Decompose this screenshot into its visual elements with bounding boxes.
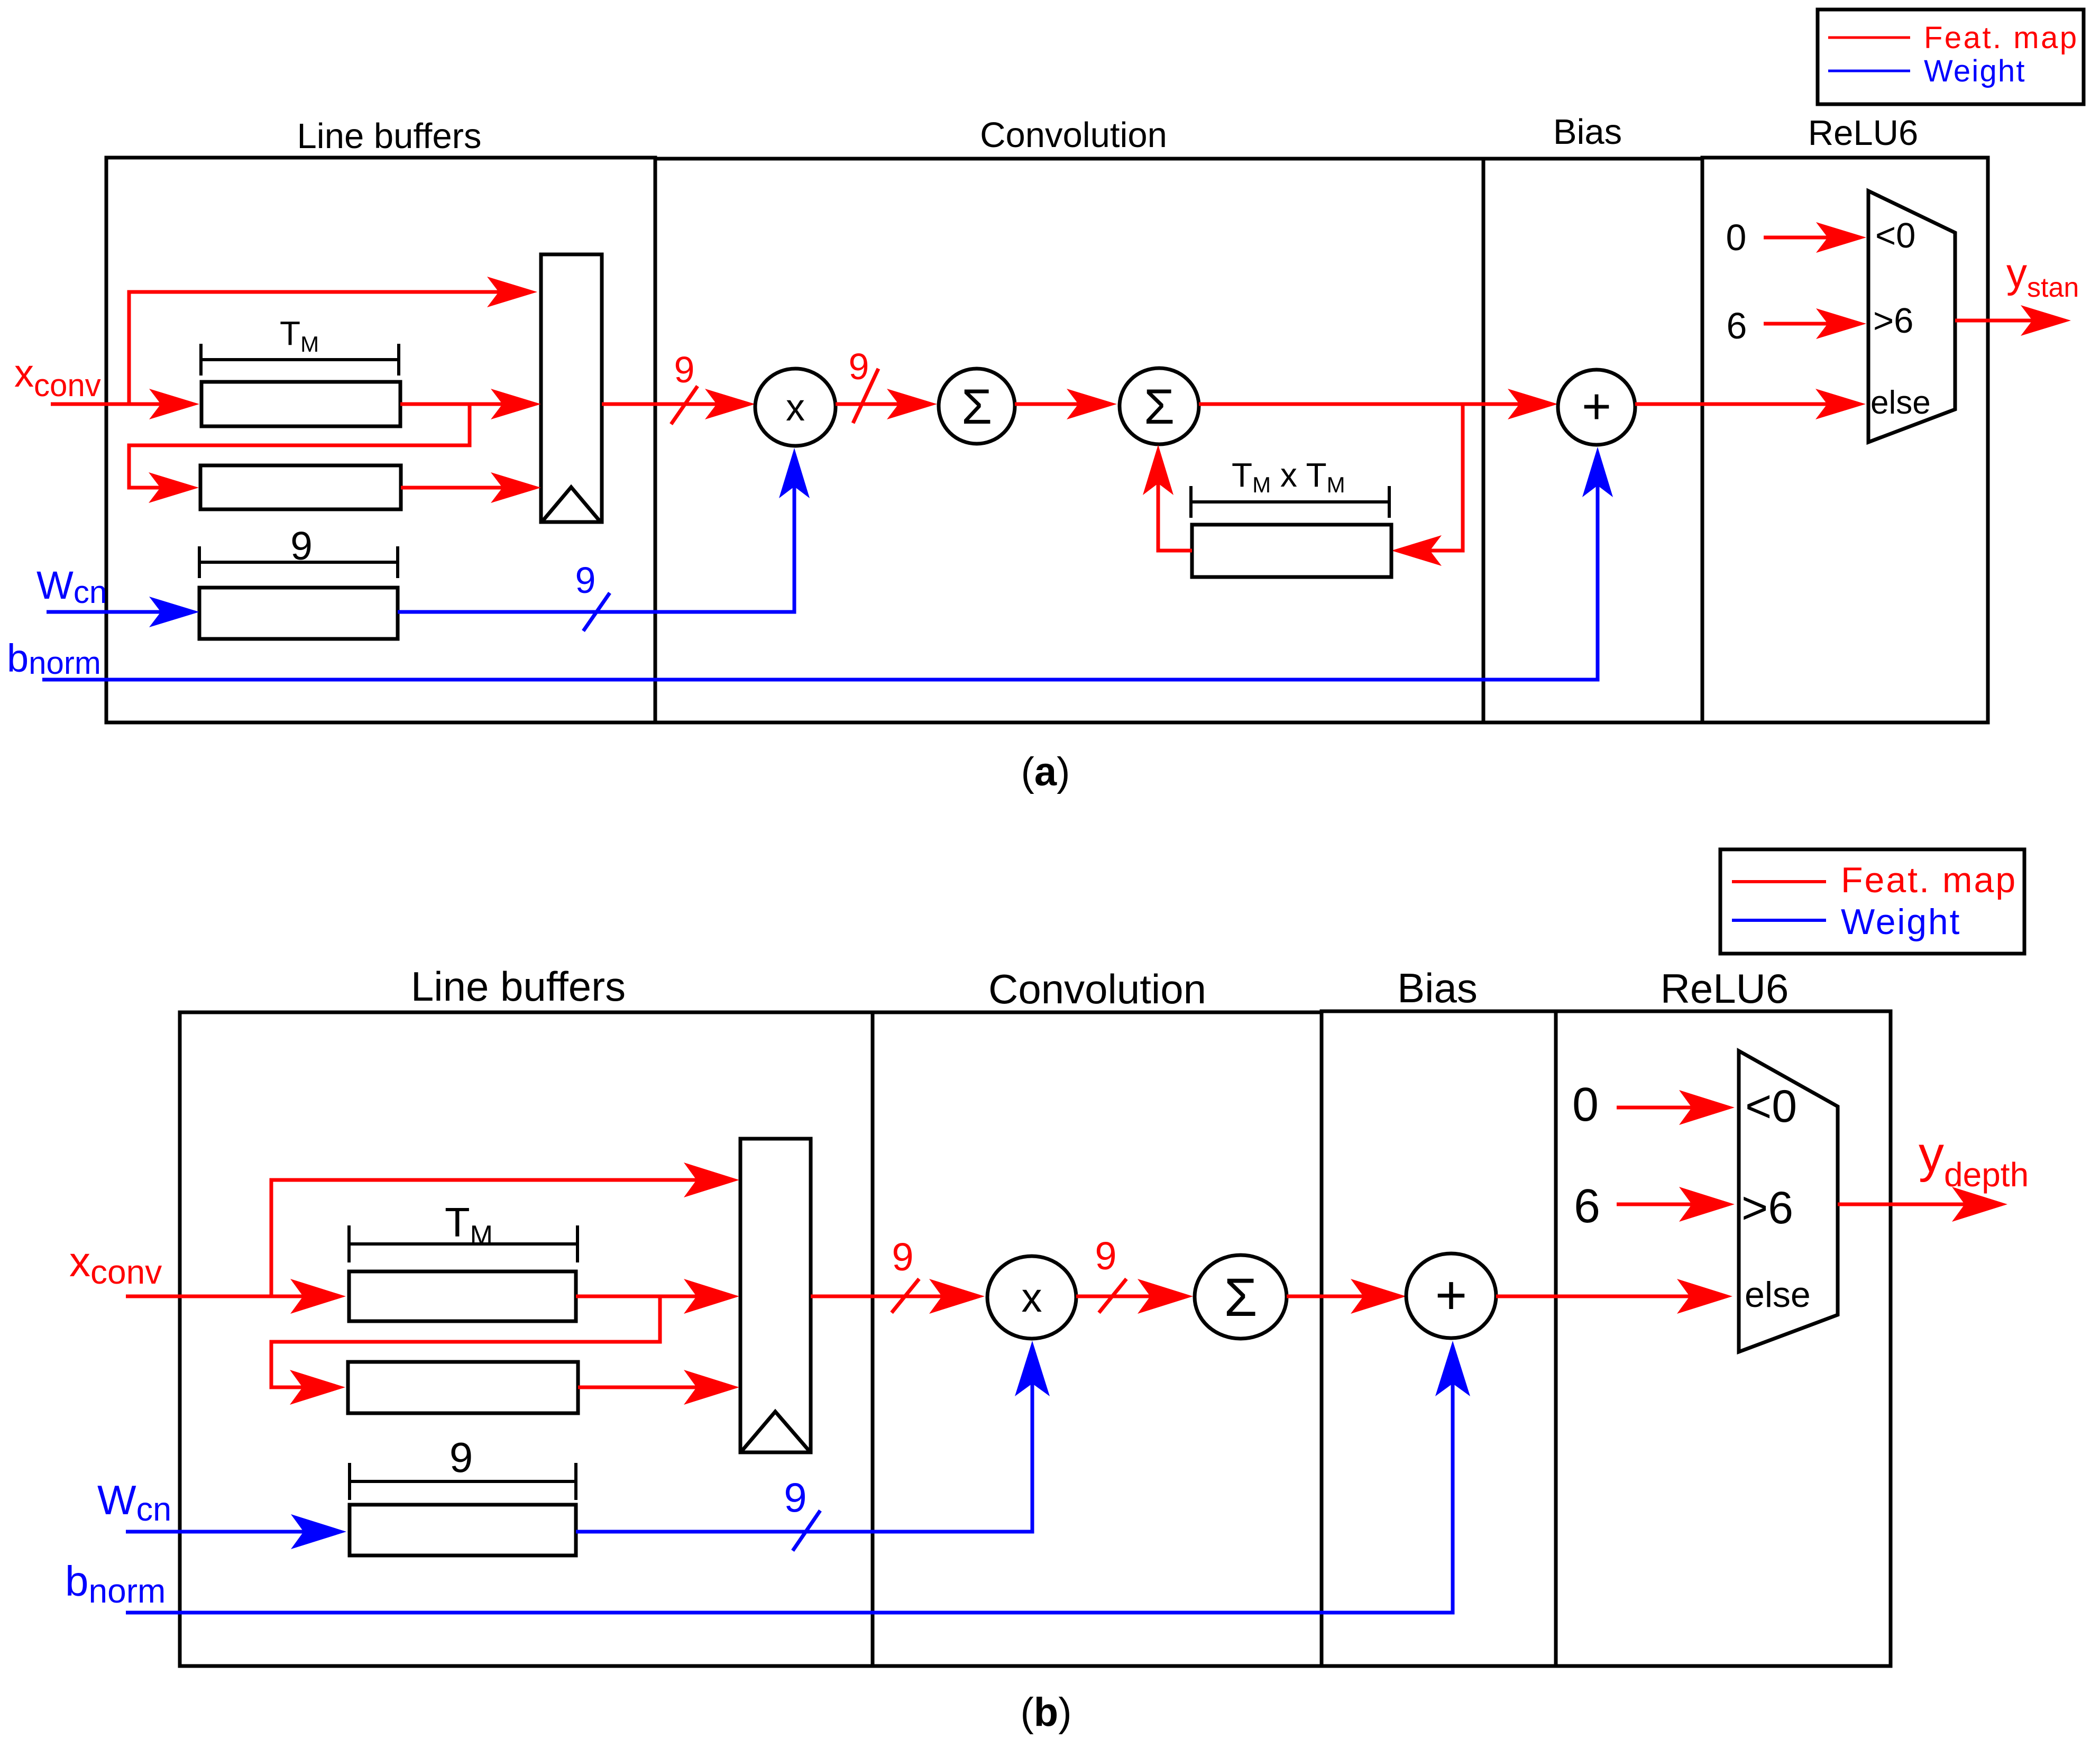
line buffer 1 (a) xyxy=(201,382,400,426)
wire mux output y_stan (a) xyxy=(1955,305,2071,336)
svg-text:Σ: Σ xyxy=(961,379,992,434)
svg-text:0: 0 xyxy=(1726,217,1747,258)
section box: Convolution (b) xyxy=(873,1012,1322,1666)
svg-text:9: 9 xyxy=(892,1235,913,1279)
svg-text:Feat. map: Feat. map xyxy=(1924,21,2079,55)
svg-text:6: 6 xyxy=(1574,1180,1600,1233)
label x_conv (a) xyxy=(14,351,101,403)
label 6 input (b) xyxy=(1574,1180,1600,1233)
wire x_conv input (b) xyxy=(126,1279,346,1314)
svg-text:>6: >6 xyxy=(1741,1183,1793,1233)
sum circle (b) xyxy=(1195,1255,1287,1339)
mux label &lt;0 (b) xyxy=(1745,1081,1797,1132)
label: ReLU6 (b) xyxy=(1661,965,1789,1012)
multiplier circle x (a) xyxy=(755,369,836,446)
svg-text:Weight: Weight xyxy=(1924,54,2026,88)
wire register output to multiplier (a) xyxy=(602,389,755,419)
mux label &gt;6 (a) xyxy=(1873,301,1913,341)
wire W_cn input (a) xyxy=(47,597,199,627)
svg-text:9: 9 xyxy=(575,560,596,601)
label T_M (b) xyxy=(445,1199,493,1251)
legend blue line sample (b) xyxy=(1732,919,1826,922)
label: Line buffers (b) xyxy=(411,963,626,1010)
wire buffer2 output to register (b) xyxy=(578,1370,739,1405)
wire 6 to mux (a) xyxy=(1764,308,1866,339)
register (a) xyxy=(541,254,602,522)
svg-text:Bias: Bias xyxy=(1397,965,1478,1011)
wire buffer1 output feedback to buffer2 (b) xyxy=(271,1296,660,1405)
label 9 weight (a) xyxy=(575,560,596,601)
caption (a) xyxy=(1021,749,1070,794)
weight buffer (b) xyxy=(350,1505,576,1555)
dimension bracket TmxTm (a) xyxy=(1191,486,1389,518)
sum circle 1 (a) xyxy=(939,369,1015,444)
wire sum2 to adder (a) xyxy=(1199,389,1558,419)
legend label: Feat. map (a) xyxy=(1924,21,2079,55)
legend red line sample (a) xyxy=(1828,36,1910,39)
svg-text:(a): (a) xyxy=(1021,749,1070,794)
svg-text:Convolution: Convolution xyxy=(980,115,1167,155)
label 9 after multiplier (a) xyxy=(849,346,869,387)
label 0 input (a) xyxy=(1726,217,1747,258)
bus slash 9 after register (b) xyxy=(892,1279,919,1313)
adder circle + (b) xyxy=(1406,1253,1496,1338)
section box: ReLU6 (a) xyxy=(1702,158,1988,722)
svg-text:+: + xyxy=(1435,1265,1468,1326)
wire sum to adder (b) xyxy=(1287,1279,1406,1314)
label 9 over weight buffer (b) xyxy=(450,1434,473,1481)
svg-text:Feat. map: Feat. map xyxy=(1841,860,2017,900)
svg-text:x: x xyxy=(1022,1274,1042,1321)
dimension bracket T_M (b) xyxy=(349,1225,577,1262)
wire weight buffer to multiplier (a) xyxy=(398,448,810,612)
label: Convolution (a) xyxy=(980,115,1167,155)
wire adder to mux else (a) xyxy=(1635,389,1866,419)
dimension bracket 9 (a) xyxy=(199,546,398,578)
svg-text:Bias: Bias xyxy=(1553,112,1622,152)
mux label &gt;6 (b) xyxy=(1741,1183,1793,1233)
label 6 input (a) xyxy=(1727,305,1747,346)
wire feedback from node to TmxTm buffer (a) xyxy=(1391,404,1463,566)
svg-text:Line buffers: Line buffers xyxy=(297,116,482,156)
svg-text:else: else xyxy=(1870,385,1931,421)
mux trapezoid (b) xyxy=(1739,1051,1838,1352)
label 9 after register (a) xyxy=(674,349,695,390)
svg-text:Weight: Weight xyxy=(1841,902,1961,942)
mux trapezoid (a) xyxy=(1868,191,1955,442)
label: ReLU6 (a) xyxy=(1808,113,1919,153)
wire 0 to mux (a) xyxy=(1764,222,1866,253)
section box: ReLU6 (b) xyxy=(1556,1011,1891,1666)
wire weight buffer to multiplier (b) xyxy=(576,1341,1050,1532)
label 9 after multiplier (b) xyxy=(1095,1234,1116,1278)
label: Bias (a) xyxy=(1553,112,1622,152)
svg-text:else: else xyxy=(1745,1275,1811,1315)
svg-text:<0: <0 xyxy=(1875,216,1915,255)
svg-text:9: 9 xyxy=(450,1434,473,1481)
section box: Bias (b) xyxy=(1322,1011,1556,1666)
section box: Line buffers (a) xyxy=(106,158,655,722)
sum circle 2 (a) xyxy=(1120,368,1199,444)
legend box (a) xyxy=(1818,10,2084,104)
wire buffer2 output to register (a) xyxy=(401,472,541,503)
legend box (b) xyxy=(1720,849,2024,954)
svg-text:9: 9 xyxy=(784,1474,806,1521)
legend label: Weight (b) xyxy=(1841,902,1961,942)
wire W_cn input (b) xyxy=(126,1514,346,1549)
mux label else (a) xyxy=(1870,385,1931,421)
label W_cn (b) xyxy=(97,1477,171,1528)
svg-text:Convolution: Convolution xyxy=(988,966,1206,1012)
wire branch to register top (a) xyxy=(129,277,537,404)
caption (b) xyxy=(1020,1690,1071,1735)
label b_norm (b) xyxy=(65,1558,166,1610)
label y_depth (b) xyxy=(1919,1126,2029,1194)
wire mux output y_depth (b) xyxy=(1838,1187,2007,1222)
wire buffer1 output to register (a) xyxy=(400,389,541,419)
wire x_conv input (a) xyxy=(51,389,199,419)
svg-text:ReLU6: ReLU6 xyxy=(1808,113,1919,153)
wire branch to register top (b) xyxy=(271,1163,739,1296)
svg-text:9: 9 xyxy=(674,349,695,390)
svg-text:<0: <0 xyxy=(1745,1081,1797,1132)
wire sum1 to sum2 (a) xyxy=(1015,389,1117,419)
section box: Bias (a) xyxy=(1483,159,1702,722)
label: Bias (b) xyxy=(1397,965,1478,1011)
bus slash 9 after multiplier (b) xyxy=(1099,1279,1126,1313)
label T_M (a) xyxy=(280,314,319,356)
label 0 input (b) xyxy=(1572,1078,1599,1131)
bus slash 9 weight (a) xyxy=(583,593,610,631)
label: Line buffers (a) xyxy=(297,116,482,156)
line buffer 2 (b) xyxy=(348,1362,578,1413)
section box: Convolution (a) xyxy=(655,159,1483,722)
register (b) xyxy=(740,1139,811,1452)
label 9 weight (b) xyxy=(784,1474,806,1521)
wire register output to multiplier (b) xyxy=(811,1279,985,1314)
label 9 over weight buffer (a) xyxy=(290,524,313,568)
svg-text:Σ: Σ xyxy=(1224,1267,1257,1328)
label y_stan (a) xyxy=(2006,250,2079,303)
svg-text:>6: >6 xyxy=(1873,301,1913,341)
wire 6 to mux (b) xyxy=(1617,1187,1735,1222)
svg-text:Σ: Σ xyxy=(1144,379,1175,434)
label 9 after register (b) xyxy=(892,1235,913,1279)
wire adder to mux else (b) xyxy=(1496,1279,1732,1314)
mux label else (b) xyxy=(1745,1275,1811,1315)
wire multiplier to sum1 (a) xyxy=(836,389,937,419)
svg-text:9: 9 xyxy=(849,346,869,387)
wire buffer1 output to register (b) xyxy=(576,1279,739,1314)
svg-text:9: 9 xyxy=(290,524,313,568)
svg-text:ReLU6: ReLU6 xyxy=(1661,965,1789,1012)
label T_M x T_M (a) xyxy=(1232,456,1345,497)
dimension bracket 9 (b) xyxy=(350,1463,576,1500)
svg-text:0: 0 xyxy=(1572,1078,1599,1131)
line buffer 1 (b) xyxy=(349,1271,576,1321)
dimension bracket T_M (a) xyxy=(201,344,399,376)
wire b_norm to adder (a) xyxy=(42,447,1613,680)
bus slash 9 after multiplier (a) xyxy=(853,369,878,423)
bus slash 9 after register (a) xyxy=(671,386,698,424)
svg-text:x: x xyxy=(786,387,805,429)
multiplier circle x (b) xyxy=(987,1256,1076,1339)
mux label &lt;0 (a) xyxy=(1875,216,1915,255)
line buffer 2 (a) xyxy=(200,465,401,509)
svg-text:6: 6 xyxy=(1727,305,1747,346)
svg-text:9: 9 xyxy=(1095,1234,1116,1278)
legend blue line sample (a) xyxy=(1828,70,1910,72)
section box: Line buffers (b) xyxy=(180,1012,873,1666)
svg-text:+: + xyxy=(1582,378,1611,435)
bus slash 9 weight (b) xyxy=(793,1511,820,1551)
wire buffer1 output feedback to buffer2 (a) xyxy=(129,404,470,503)
svg-text:(b): (b) xyxy=(1020,1690,1071,1735)
legend label: Weight (a) xyxy=(1924,54,2026,88)
svg-text:Line buffers: Line buffers xyxy=(411,963,626,1010)
wire b_norm to adder (b) xyxy=(126,1341,1470,1613)
wire multiplier to sum (b) xyxy=(1076,1279,1193,1314)
legend red line sample (b) xyxy=(1732,880,1826,883)
adder circle + (a) xyxy=(1558,370,1635,445)
label x_conv (b) xyxy=(69,1238,162,1291)
legend label: Feat. map (b) xyxy=(1841,860,2017,900)
label b_norm (a) xyxy=(7,636,101,681)
label W_cn (a) xyxy=(36,563,107,610)
weight buffer (a) xyxy=(199,588,398,639)
label: Convolution (b) xyxy=(988,966,1206,1012)
accumulator buffer TmxTm (a) xyxy=(1192,525,1391,577)
wire 0 to mux (b) xyxy=(1617,1090,1735,1125)
wire TmxTm buffer to sum2 (a) xyxy=(1143,445,1192,551)
